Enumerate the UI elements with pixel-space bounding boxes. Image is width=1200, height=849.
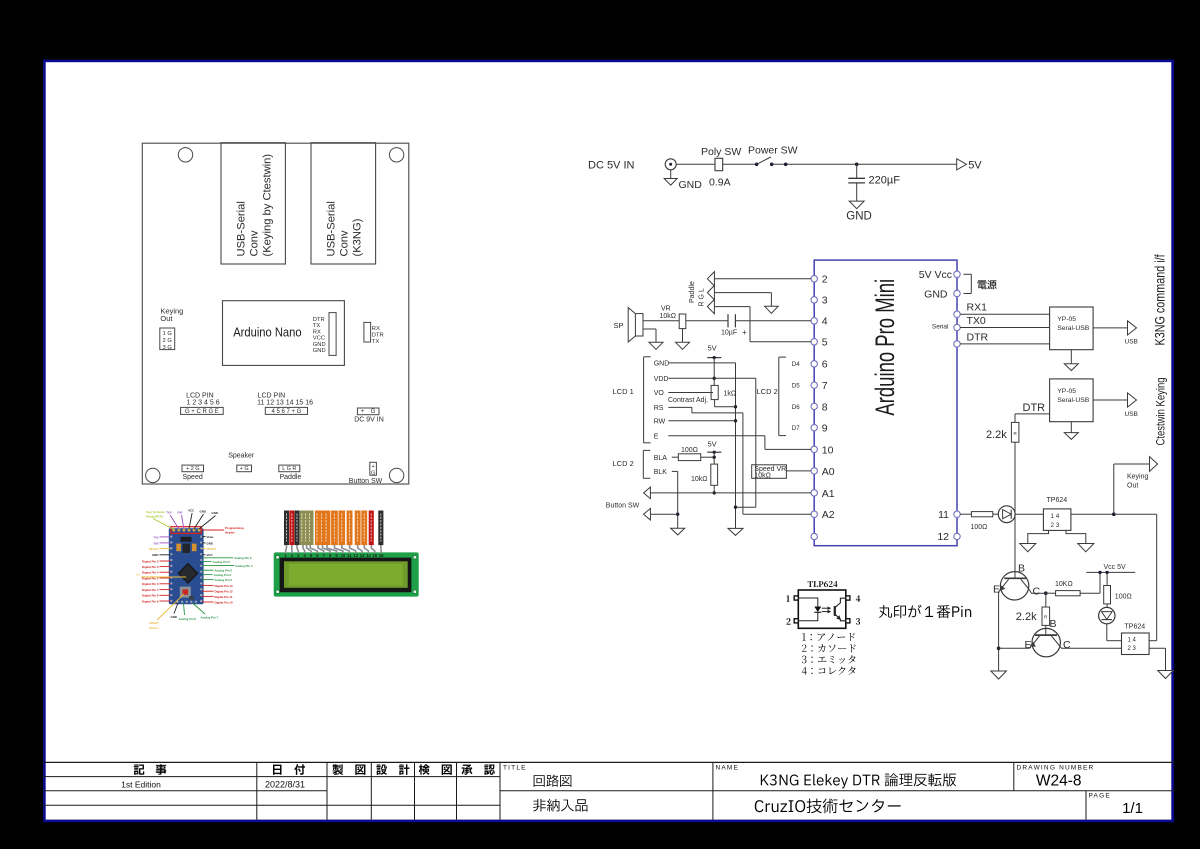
svg-text:+: + <box>371 464 374 470</box>
svg-text:10µF: 10µF <box>721 330 737 337</box>
svg-text:Seral-USB: Seral-USB <box>1057 397 1090 404</box>
svg-text:4 5 6 7 + G: 4 5 6 7 + G <box>271 409 301 415</box>
svg-text:0.9A: 0.9A <box>709 177 731 189</box>
svg-text:Conv: Conv <box>249 230 261 257</box>
svg-text:Analog Pin 6: Analog Pin 6 <box>234 556 252 560</box>
svg-text:Digital Pin 13: Digital Pin 13 <box>215 584 234 588</box>
svg-text:1st Edition: 1st Edition <box>121 779 161 789</box>
svg-text:PAGE: PAGE <box>1089 793 1111 800</box>
svg-text:GND: GND <box>846 210 872 222</box>
svg-text:K3NG command i/f: K3NG command i/f <box>1152 254 1167 346</box>
svg-text:GND: GND <box>654 361 670 368</box>
svg-text:L G R: L G R <box>282 466 296 472</box>
svg-text:4: 4 <box>822 316 828 328</box>
svg-text:Analog Pin 7: Analog Pin 7 <box>201 616 219 620</box>
svg-text:GND: GND <box>679 179 703 191</box>
svg-text:TX0: TX0 <box>967 315 986 327</box>
svg-text:Analog Pin 2: Analog Pin 2 <box>215 569 233 573</box>
svg-text:RESET: RESET <box>207 547 217 551</box>
svg-text:2022/8/31: 2022/8/31 <box>265 780 305 790</box>
svg-text:Power SW: Power SW <box>748 145 798 157</box>
svg-text:GND: GND <box>924 288 948 300</box>
svg-text:11: 11 <box>347 553 352 558</box>
svg-text:Digital Pin 7: Digital Pin 7 <box>142 588 159 592</box>
svg-text:USB: USB <box>1125 339 1138 346</box>
svg-text:USB-Serial: USB-Serial <box>326 201 338 256</box>
svg-text:Keying: Keying <box>1127 474 1149 481</box>
svg-text:RS: RS <box>654 405 664 412</box>
svg-text:VDD: VDD <box>654 376 669 383</box>
svg-text:C: C <box>1033 586 1041 598</box>
svg-text:Contrast Adj.: Contrast Adj. <box>668 397 708 404</box>
svg-text:USB-Serial: USB-Serial <box>236 201 248 256</box>
svg-text:VCC: VCC <box>313 336 325 342</box>
svg-text:A2: A2 <box>822 509 835 521</box>
svg-text:Digital Pin 8: Digital Pin 8 <box>142 594 159 598</box>
svg-text:GND: GND <box>313 348 326 354</box>
svg-text:D7: D7 <box>792 425 800 432</box>
svg-text:10kΩ: 10kΩ <box>754 473 771 480</box>
svg-text:Paddle: Paddle <box>280 474 302 481</box>
svg-text:Button: Button <box>149 626 159 630</box>
svg-text:14: 14 <box>366 553 371 558</box>
svg-text:2.2k: 2.2k <box>1016 611 1037 623</box>
svg-text:3: 3 <box>822 295 828 307</box>
svg-text:1 4: 1 4 <box>1128 638 1137 644</box>
svg-text:RW: RW <box>654 419 666 426</box>
svg-text:LCD PIN: LCD PIN <box>258 392 286 399</box>
svg-text:220µF: 220µF <box>869 175 901 187</box>
svg-text:VCC: VCC <box>207 553 214 557</box>
svg-text:Poly SW: Poly SW <box>701 146 741 158</box>
svg-text:BLK: BLK <box>654 469 668 476</box>
svg-text:SP: SP <box>614 321 624 330</box>
svg-text:VR: VR <box>661 306 671 313</box>
svg-text:W24-8: W24-8 <box>1036 772 1082 789</box>
svg-text:RXI: RXI <box>154 541 159 545</box>
svg-text:Button SW: Button SW <box>349 478 383 485</box>
svg-text:TX0: TX0 <box>166 511 172 515</box>
svg-text:Dun Terminal: Dun Terminal <box>146 510 164 514</box>
svg-text:E: E <box>1025 639 1032 651</box>
svg-text:Vcc 5V: Vcc 5V <box>1104 564 1127 571</box>
svg-text:9: 9 <box>822 423 828 435</box>
svg-text:Ready(DTR): Ready(DTR) <box>146 515 163 519</box>
svg-text:YP-05: YP-05 <box>1057 388 1076 395</box>
svg-text:E: E <box>993 584 1000 596</box>
svg-text:LCD 1: LCD 1 <box>613 387 634 396</box>
svg-text:Arduino Nano: Arduino Nano <box>233 325 301 340</box>
svg-text:1/1: 1/1 <box>1122 800 1143 817</box>
svg-text:Analog Pin 4: Analog Pin 4 <box>235 564 253 568</box>
svg-text:2 3: 2 3 <box>1128 646 1137 652</box>
svg-text:A1: A1 <box>822 488 835 500</box>
svg-text:10kΩ: 10kΩ <box>660 313 677 320</box>
svg-text:USB: USB <box>1125 411 1138 418</box>
svg-text:RX: RX <box>372 326 380 332</box>
svg-text:1 G: 1 G <box>163 331 173 337</box>
svg-text:NAME: NAME <box>716 764 740 771</box>
svg-text:10kΩ: 10kΩ <box>691 476 708 483</box>
svg-text:GND: GND <box>313 342 326 348</box>
svg-text:GND: GND <box>207 541 213 545</box>
svg-text:5V: 5V <box>968 160 982 172</box>
svg-text:Ctestwin Keying: Ctestwin Keying <box>1154 377 1167 445</box>
svg-text:Digital Pin 11: Digital Pin 11 <box>215 595 233 599</box>
svg-text:(Keying by Ctestwin): (Keying by Ctestwin) <box>262 154 274 257</box>
svg-text:1 4: 1 4 <box>1051 513 1060 520</box>
svg-text:Analog Pin 0: Analog Pin 0 <box>215 578 233 582</box>
svg-text:+: + <box>742 328 747 337</box>
svg-text:Header: Header <box>225 531 236 535</box>
svg-text:15: 15 <box>372 553 377 558</box>
svg-text:(K3NG): (K3NG) <box>352 218 364 256</box>
svg-text:8: 8 <box>822 401 828 413</box>
svg-text:YP-05: YP-05 <box>1057 316 1076 323</box>
svg-text:BLA: BLA <box>654 455 668 462</box>
svg-text:11 12 13 14 15 16: 11 12 13 14 15 16 <box>257 400 313 407</box>
svg-text:TP624: TP624 <box>1047 497 1068 504</box>
svg-text:E: E <box>654 433 659 440</box>
svg-text:12: 12 <box>353 553 358 558</box>
svg-text:DTR: DTR <box>1023 402 1046 414</box>
svg-text:Out: Out <box>160 314 173 323</box>
svg-text:Serial: Serial <box>932 324 949 331</box>
svg-text:B: B <box>1018 563 1025 575</box>
svg-text:2: 2 <box>822 274 828 286</box>
svg-text:Arduino Pro Mini: Arduino Pro Mini <box>870 279 900 416</box>
svg-text:D4: D4 <box>792 361 800 368</box>
svg-text:TX: TX <box>313 323 321 329</box>
svg-text:10KΩ: 10KΩ <box>1055 581 1073 588</box>
svg-text:LCD 2: LCD 2 <box>757 387 778 396</box>
svg-text:100Ω: 100Ω <box>681 447 698 454</box>
svg-text:R G L: R G L <box>699 288 706 306</box>
svg-text:7: 7 <box>822 380 828 392</box>
svg-text:LCD 2: LCD 2 <box>613 459 634 468</box>
svg-text:Analog Pin 3: Analog Pin 3 <box>214 573 232 577</box>
svg-text:DTR: DTR <box>313 317 325 323</box>
svg-text:RX1: RX1 <box>967 302 988 314</box>
svg-text:Out: Out <box>1127 482 1138 489</box>
svg-text:Digital Pin 2: Digital Pin 2 <box>142 559 159 563</box>
svg-text:Digital Pin 12: Digital Pin 12 <box>215 590 234 594</box>
svg-text:12: 12 <box>937 531 949 543</box>
svg-text:VO: VO <box>654 390 665 397</box>
svg-text:G + C R G E: G + C R G E <box>185 409 219 415</box>
svg-text:Digital Pin 9: Digital Pin 9 <box>142 599 159 603</box>
svg-text:Vraw: Vraw <box>207 535 215 539</box>
svg-text:100Ω: 100Ω <box>1115 594 1132 601</box>
svg-text:RXI: RXI <box>178 511 183 515</box>
svg-text:2 G: 2 G <box>163 338 173 344</box>
svg-text:Seral-USB: Seral-USB <box>1057 325 1090 332</box>
svg-text:Paddle: Paddle <box>689 281 696 303</box>
svg-text:Digital Pin 6: Digital Pin 6 <box>142 582 159 586</box>
svg-text:GND: GND <box>212 511 218 515</box>
svg-text:5V Vcc: 5V Vcc <box>919 269 952 281</box>
svg-text:C: C <box>1063 639 1071 651</box>
svg-text:DC 9V IN: DC 9V IN <box>354 416 384 423</box>
svg-text:TX0: TX0 <box>153 535 159 539</box>
svg-text:1 2 3 4 5 6: 1 2 3 4 5 6 <box>187 400 220 407</box>
svg-text:2.2k: 2.2k <box>986 429 1007 441</box>
svg-text:Analog Pin 6: Analog Pin 6 <box>179 617 197 621</box>
svg-text:+: + <box>361 409 365 415</box>
svg-text:2 3: 2 3 <box>1051 522 1060 529</box>
svg-text:Digital Pin 3: Digital Pin 3 <box>142 565 159 569</box>
svg-text:Digital Pin 4: Digital Pin 4 <box>142 571 159 575</box>
svg-text:10: 10 <box>822 444 834 456</box>
svg-text:GND: GND <box>200 510 206 514</box>
svg-text:DTR: DTR <box>372 333 384 339</box>
svg-text:der: der <box>136 573 140 577</box>
svg-text:RESET: RESET <box>149 621 159 625</box>
svg-text:VCC: VCC <box>188 509 195 513</box>
svg-text:16: 16 <box>379 553 384 558</box>
svg-text:RX: RX <box>313 329 321 335</box>
svg-text:13: 13 <box>360 553 365 558</box>
svg-text:5V: 5V <box>708 344 717 353</box>
svg-text:D6: D6 <box>792 404 800 411</box>
svg-text:1kΩ: 1kΩ <box>724 391 737 398</box>
svg-text:+ G: + G <box>240 466 249 472</box>
svg-text:G: G <box>371 409 376 415</box>
svg-text:Analog Pin 5: Analog Pin 5 <box>213 560 231 564</box>
svg-text:G: G <box>371 470 375 476</box>
svg-text:6: 6 <box>822 359 828 371</box>
svg-text:RESET: RESET <box>149 547 159 551</box>
svg-text:TITLE: TITLE <box>503 764 527 771</box>
svg-text:B: B <box>1050 618 1057 630</box>
svg-text:DC 5V IN: DC 5V IN <box>588 160 635 172</box>
svg-text:3 G: 3 G <box>163 345 173 351</box>
svg-text:5: 5 <box>822 337 828 349</box>
svg-text:TP624: TP624 <box>1125 623 1146 630</box>
svg-text:Digital Pin 10: Digital Pin 10 <box>215 600 234 604</box>
svg-text:10: 10 <box>341 553 346 558</box>
svg-text:Speaker: Speaker <box>228 453 255 460</box>
svg-text:TX: TX <box>372 339 380 345</box>
svg-text:+ 2 G: + 2 G <box>186 466 200 472</box>
svg-text:Programming: Programming <box>225 526 244 530</box>
svg-text:D5: D5 <box>792 383 800 390</box>
svg-text:5V: 5V <box>708 440 717 449</box>
svg-text:Conv: Conv <box>339 230 351 257</box>
svg-text:DTR: DTR <box>967 331 989 343</box>
svg-text:GND: GND <box>171 615 177 619</box>
svg-text:Button SW: Button SW <box>606 502 640 509</box>
svg-text:A0: A0 <box>822 466 835 478</box>
svg-text:11: 11 <box>938 509 949 521</box>
svg-text:LCD PIN: LCD PIN <box>186 392 214 399</box>
svg-text:DRAWING NUMBER: DRAWING NUMBER <box>1017 764 1095 771</box>
svg-text:100Ω: 100Ω <box>971 524 988 531</box>
svg-text:Speed: Speed <box>183 474 203 481</box>
svg-text:GND: GND <box>152 553 158 557</box>
